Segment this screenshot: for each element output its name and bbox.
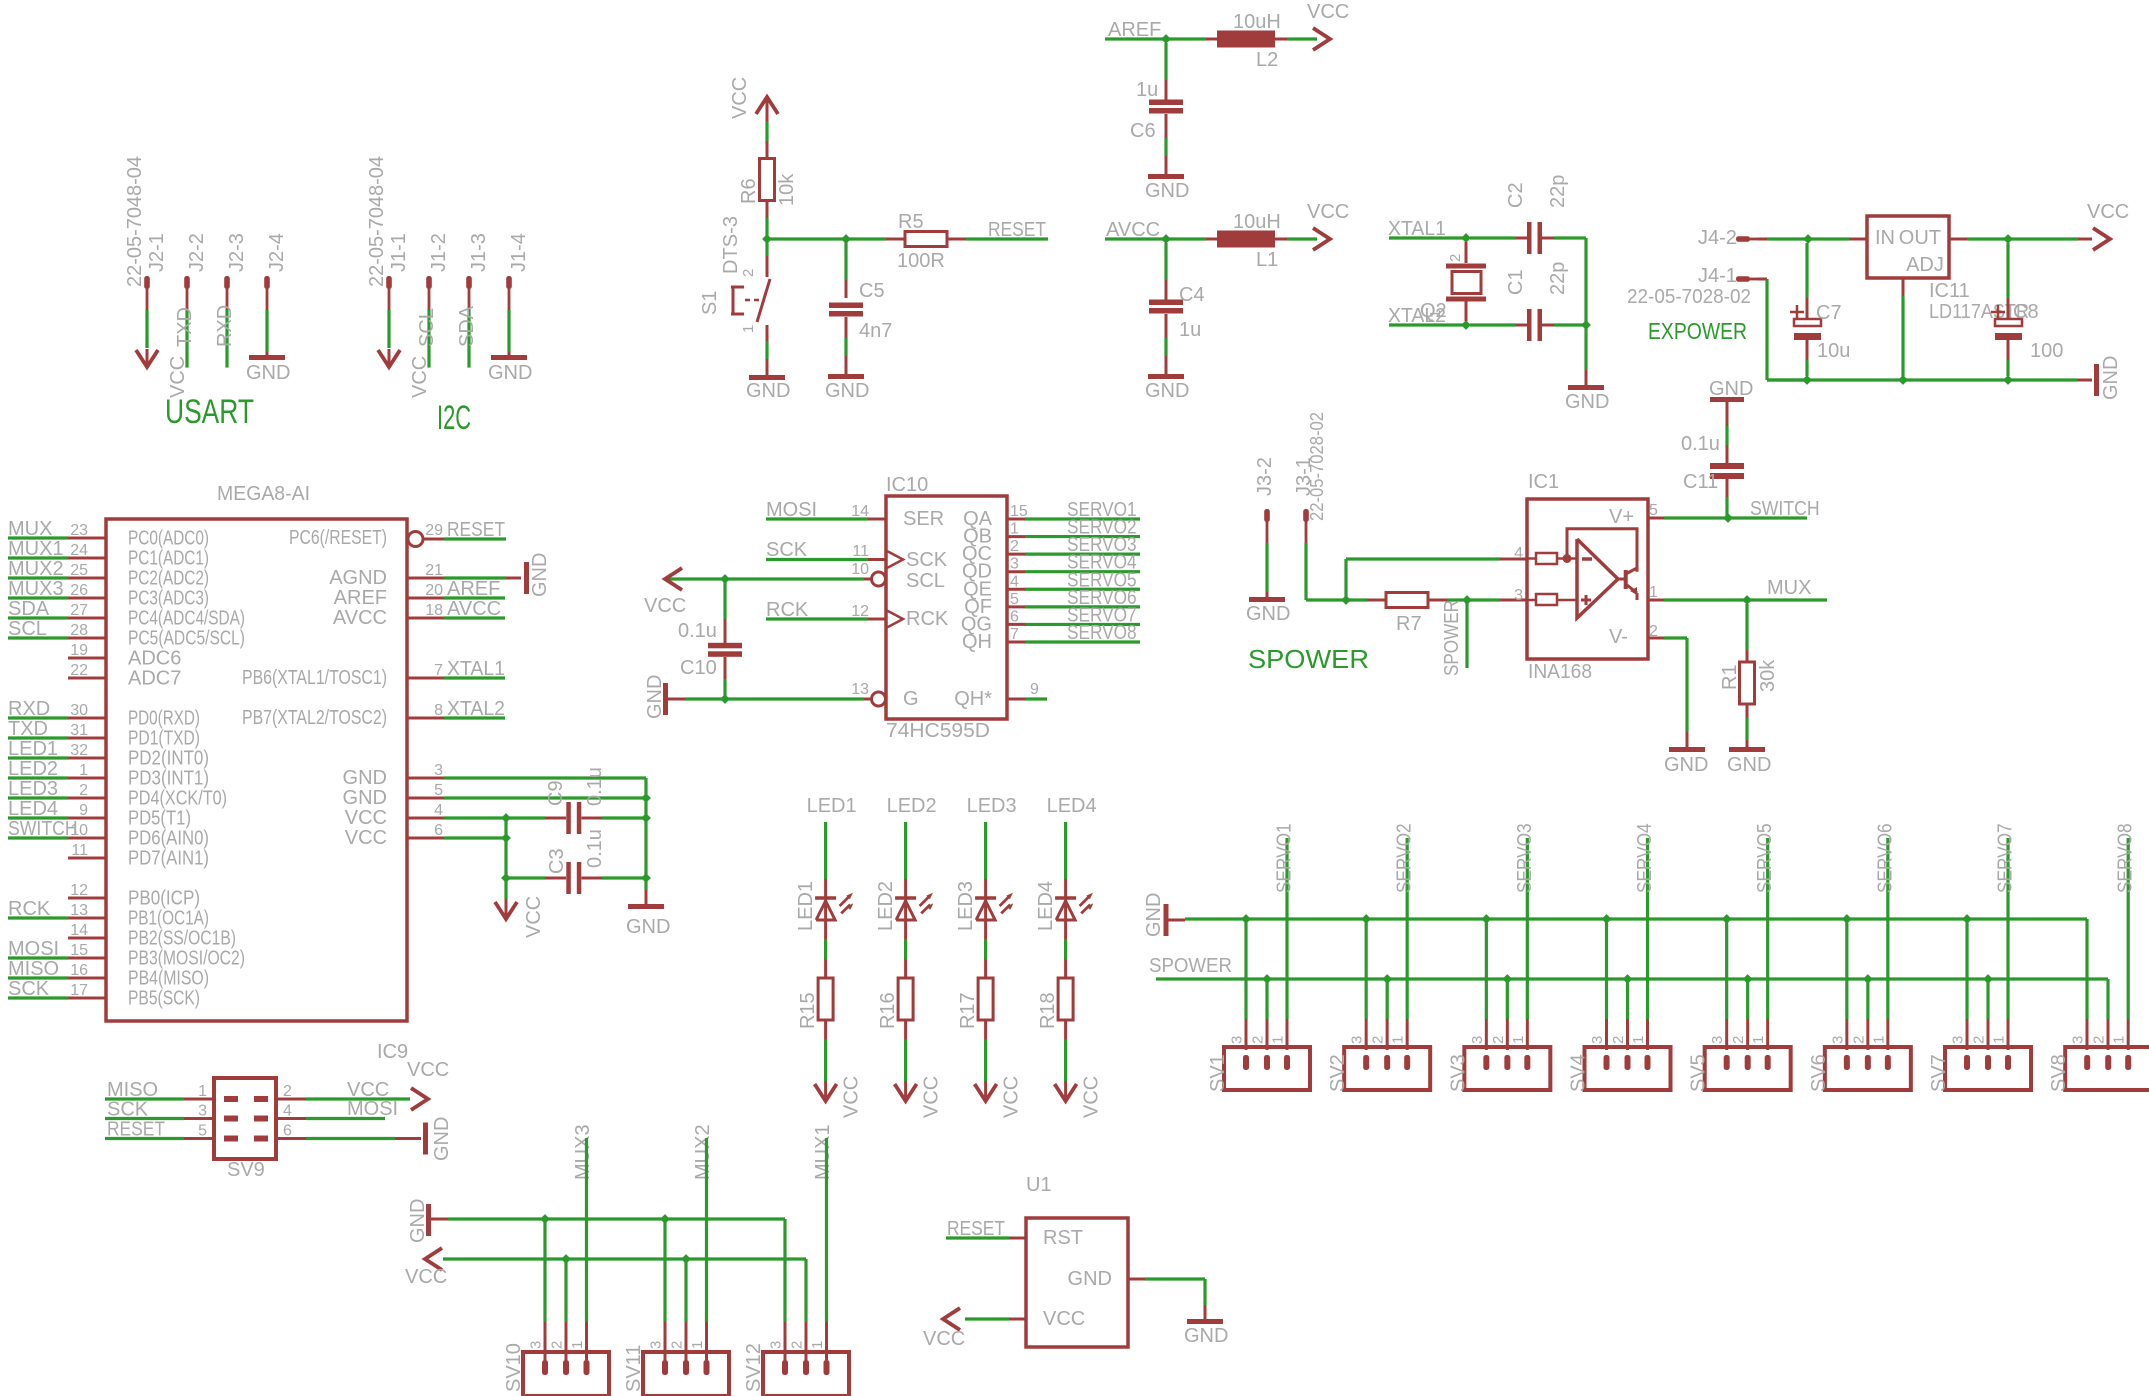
svg-text:2: 2 bbox=[1490, 1036, 1507, 1044]
svg-text:SCL: SCL bbox=[906, 570, 945, 592]
svg-text:2: 2 bbox=[79, 782, 88, 799]
svg-text:VCC: VCC bbox=[1307, 201, 1349, 223]
svg-text:C4: C4 bbox=[1179, 284, 1205, 306]
svg-text:10uH: 10uH bbox=[1233, 211, 1281, 233]
svg-text:MOSI: MOSI bbox=[8, 938, 59, 960]
svg-text:31: 31 bbox=[70, 722, 88, 739]
svg-text:1: 1 bbox=[2111, 1036, 2128, 1044]
svg-text:0.1u: 0.1u bbox=[678, 620, 717, 642]
svg-text:SV3: SV3 bbox=[1447, 1054, 1469, 1092]
svg-text:4n7: 4n7 bbox=[859, 320, 892, 342]
svg-text:17: 17 bbox=[70, 982, 88, 999]
svg-text:10k: 10k bbox=[776, 173, 798, 206]
svg-text:16: 16 bbox=[70, 962, 88, 979]
svg-text:3: 3 bbox=[2070, 1036, 2087, 1044]
svg-text:3: 3 bbox=[648, 1341, 665, 1349]
svg-text:GND: GND bbox=[2100, 356, 2122, 400]
svg-text:2: 2 bbox=[1971, 1036, 1988, 1044]
svg-text:EXPOWER: EXPOWER bbox=[1648, 318, 1747, 344]
svg-text:PC0(ADC0): PC0(ADC0) bbox=[128, 528, 209, 550]
svg-text:AREF: AREF bbox=[447, 578, 500, 600]
svg-text:R18: R18 bbox=[1037, 992, 1059, 1029]
svg-text:0.1u: 0.1u bbox=[584, 767, 606, 806]
svg-text:PC4(ADC4/SDA): PC4(ADC4/SDA) bbox=[128, 608, 245, 630]
svg-text:5: 5 bbox=[198, 1123, 207, 1140]
svg-text:R7: R7 bbox=[1396, 613, 1422, 635]
svg-text:INA168: INA168 bbox=[1528, 661, 1592, 683]
svg-text:RESET: RESET bbox=[988, 219, 1046, 241]
svg-text:R16: R16 bbox=[877, 992, 899, 1029]
svg-text:LED3: LED3 bbox=[967, 795, 1017, 817]
svg-text:PB4(MISO): PB4(MISO) bbox=[128, 968, 209, 990]
svg-text:3: 3 bbox=[434, 762, 443, 779]
svg-text:25: 25 bbox=[70, 562, 88, 579]
svg-text:SV10: SV10 bbox=[503, 1343, 525, 1392]
svg-text:AREF: AREF bbox=[334, 587, 387, 609]
svg-text:PB0(ICP): PB0(ICP) bbox=[128, 888, 200, 910]
svg-text:GND: GND bbox=[343, 767, 387, 789]
svg-text:1: 1 bbox=[689, 1341, 706, 1349]
svg-text:LED1: LED1 bbox=[795, 881, 817, 931]
svg-text:VCC: VCC bbox=[523, 896, 545, 938]
svg-text:2: 2 bbox=[1447, 254, 1464, 262]
svg-text:PD3(INT1): PD3(INT1) bbox=[128, 768, 209, 790]
svg-text:1: 1 bbox=[1390, 1036, 1407, 1044]
svg-text:SCK: SCK bbox=[8, 978, 50, 1000]
svg-text:MUX1: MUX1 bbox=[8, 538, 64, 560]
svg-text:R6: R6 bbox=[738, 178, 760, 204]
svg-text:PD0(RXD): PD0(RXD) bbox=[128, 708, 200, 730]
svg-text:J4-2: J4-2 bbox=[1698, 227, 1737, 249]
svg-text:1: 1 bbox=[1010, 521, 1019, 538]
svg-text:V-: V- bbox=[1609, 626, 1628, 648]
svg-text:LED1: LED1 bbox=[8, 738, 58, 760]
svg-text:2: 2 bbox=[1010, 538, 1019, 555]
svg-text:PC5(ADC5/SCL): PC5(ADC5/SCL) bbox=[128, 628, 245, 650]
svg-text:VCC: VCC bbox=[345, 827, 387, 849]
svg-text:MISO: MISO bbox=[8, 958, 59, 980]
svg-text:PC1(ADC1): PC1(ADC1) bbox=[128, 548, 209, 570]
svg-text:J1-2: J1-2 bbox=[428, 233, 450, 272]
svg-text:C1: C1 bbox=[1505, 269, 1527, 295]
svg-text:DTS-3: DTS-3 bbox=[720, 216, 742, 274]
svg-text:GND: GND bbox=[488, 362, 532, 384]
svg-text:12: 12 bbox=[851, 603, 869, 620]
svg-text:VCC: VCC bbox=[1043, 1308, 1085, 1330]
svg-text:1: 1 bbox=[1630, 1036, 1647, 1044]
svg-text:C5: C5 bbox=[859, 280, 885, 302]
svg-text:VCC: VCC bbox=[1001, 1076, 1023, 1118]
svg-text:1: 1 bbox=[1270, 1036, 1287, 1044]
svg-text:VCC: VCC bbox=[405, 1266, 447, 1288]
svg-text:J4-1: J4-1 bbox=[1698, 265, 1737, 287]
svg-text:1u: 1u bbox=[1179, 319, 1201, 341]
svg-text:R1: R1 bbox=[1719, 664, 1741, 690]
svg-text:VCC: VCC bbox=[1307, 1, 1349, 23]
svg-text:SV8: SV8 bbox=[2048, 1054, 2070, 1092]
svg-text:28: 28 bbox=[70, 622, 88, 639]
svg-text:AVCC: AVCC bbox=[333, 607, 387, 629]
svg-text:8: 8 bbox=[434, 702, 443, 719]
svg-text:C7: C7 bbox=[1816, 302, 1842, 324]
svg-text:IC10: IC10 bbox=[886, 474, 928, 496]
svg-text:PD2(INT0): PD2(INT0) bbox=[128, 748, 209, 770]
svg-text:GND: GND bbox=[1727, 754, 1771, 776]
svg-text:4: 4 bbox=[1514, 545, 1523, 562]
svg-text:SPOWER: SPOWER bbox=[1149, 955, 1232, 977]
svg-text:GND: GND bbox=[1143, 893, 1165, 937]
svg-text:SCL: SCL bbox=[8, 618, 47, 640]
svg-text:IC11: IC11 bbox=[1929, 280, 1970, 302]
svg-text:23: 23 bbox=[70, 522, 88, 539]
svg-text:VCC: VCC bbox=[1081, 1076, 1103, 1118]
svg-text:0.1u: 0.1u bbox=[584, 829, 606, 868]
svg-text:AGND: AGND bbox=[329, 567, 387, 589]
svg-text:3: 3 bbox=[528, 1341, 545, 1349]
svg-text:4: 4 bbox=[283, 1103, 292, 1120]
svg-text:SERVO3: SERVO3 bbox=[1514, 823, 1536, 893]
svg-text:3: 3 bbox=[1829, 1036, 1846, 1044]
svg-text:MUX: MUX bbox=[8, 518, 52, 540]
svg-text:J2-1: J2-1 bbox=[146, 233, 168, 272]
svg-text:GND: GND bbox=[1145, 180, 1189, 202]
svg-text:MUX3: MUX3 bbox=[8, 578, 64, 600]
svg-text:GND: GND bbox=[431, 1117, 453, 1161]
svg-text:19: 19 bbox=[70, 642, 88, 659]
svg-text:SER: SER bbox=[903, 508, 944, 530]
svg-text:3: 3 bbox=[1469, 1036, 1486, 1044]
svg-text:3: 3 bbox=[1514, 587, 1523, 604]
svg-text:5: 5 bbox=[434, 782, 443, 799]
svg-text:LED4: LED4 bbox=[8, 798, 58, 820]
svg-text:2: 2 bbox=[1850, 1036, 1867, 1044]
svg-text:PD4(XCK/T0): PD4(XCK/T0) bbox=[128, 788, 227, 810]
svg-text:22p: 22p bbox=[1547, 262, 1569, 295]
svg-text:SERVO1: SERVO1 bbox=[1274, 823, 1296, 893]
svg-text:IC1: IC1 bbox=[1528, 471, 1559, 493]
svg-text:SV4: SV4 bbox=[1568, 1054, 1590, 1092]
svg-text:AVCC: AVCC bbox=[447, 598, 501, 620]
svg-text:1: 1 bbox=[198, 1083, 207, 1100]
svg-text:1: 1 bbox=[1649, 584, 1658, 601]
svg-text:QH: QH bbox=[962, 631, 992, 653]
svg-text:C8: C8 bbox=[2013, 301, 2039, 323]
svg-text:LED2: LED2 bbox=[875, 881, 897, 931]
svg-text:GND: GND bbox=[1145, 380, 1189, 402]
svg-text:2: 2 bbox=[1730, 1036, 1747, 1044]
svg-text:USART: USART bbox=[165, 393, 254, 431]
svg-text:SV11: SV11 bbox=[623, 1345, 645, 1392]
svg-text:9: 9 bbox=[1030, 681, 1039, 698]
svg-text:11: 11 bbox=[71, 842, 88, 859]
svg-text:RCK: RCK bbox=[8, 898, 51, 920]
svg-text:10uH: 10uH bbox=[1233, 11, 1281, 33]
svg-text:4: 4 bbox=[434, 802, 443, 819]
svg-text:SERVO8: SERVO8 bbox=[2115, 823, 2137, 893]
svg-text:0.1u: 0.1u bbox=[1681, 433, 1720, 455]
svg-text:LED4: LED4 bbox=[1035, 881, 1057, 931]
svg-text:J2-3: J2-3 bbox=[226, 233, 248, 272]
svg-text:VCC: VCC bbox=[841, 1076, 863, 1118]
svg-text:RESET: RESET bbox=[107, 1119, 165, 1141]
svg-text:1: 1 bbox=[1991, 1036, 2008, 1044]
svg-text:7: 7 bbox=[1010, 626, 1019, 643]
svg-text:R15: R15 bbox=[797, 992, 819, 1029]
svg-text:J1-4: J1-4 bbox=[508, 233, 530, 272]
svg-text:VCC: VCC bbox=[729, 77, 751, 119]
svg-text:MUX1: MUX1 bbox=[812, 1124, 834, 1180]
svg-text:24: 24 bbox=[70, 542, 88, 559]
svg-text:I2C: I2C bbox=[437, 399, 471, 437]
svg-text:U1: U1 bbox=[1026, 1174, 1052, 1196]
svg-text:J2-2: J2-2 bbox=[186, 233, 208, 272]
svg-text:VCC: VCC bbox=[921, 1076, 943, 1118]
svg-text:GND: GND bbox=[1246, 603, 1290, 625]
svg-text:MEGA8-AI: MEGA8-AI bbox=[217, 483, 310, 505]
svg-text:TXD: TXD bbox=[174, 307, 196, 347]
svg-text:29: 29 bbox=[425, 522, 443, 539]
svg-text:22p: 22p bbox=[1547, 175, 1569, 208]
svg-text:15: 15 bbox=[70, 942, 88, 959]
svg-text:LED2: LED2 bbox=[887, 795, 937, 817]
svg-text:2: 2 bbox=[2091, 1036, 2108, 1044]
svg-text:ADJ: ADJ bbox=[1906, 254, 1944, 276]
svg-text:10u: 10u bbox=[1817, 340, 1850, 362]
svg-text:PD1(TXD): PD1(TXD) bbox=[128, 728, 200, 750]
svg-text:22-05-7048-04: 22-05-7048-04 bbox=[366, 156, 388, 287]
svg-text:J2-4: J2-4 bbox=[266, 233, 288, 272]
svg-text:XTAL1: XTAL1 bbox=[447, 658, 505, 680]
svg-text:1: 1 bbox=[569, 1341, 586, 1349]
svg-text:SCK: SCK bbox=[906, 549, 948, 571]
svg-text:GND: GND bbox=[246, 362, 290, 384]
svg-text:PB7(XTAL2/TOSC2): PB7(XTAL2/TOSC2) bbox=[242, 707, 387, 729]
svg-text:22-05-7048-04: 22-05-7048-04 bbox=[124, 156, 146, 287]
svg-text:GND: GND bbox=[746, 380, 790, 402]
svg-text:J1-1: J1-1 bbox=[388, 233, 410, 272]
svg-text:VCC: VCC bbox=[644, 595, 686, 617]
svg-text:SERVO6: SERVO6 bbox=[1874, 823, 1896, 893]
svg-text:30: 30 bbox=[70, 702, 88, 719]
svg-text:GND: GND bbox=[529, 553, 551, 597]
svg-text:J3-2: J3-2 bbox=[1254, 457, 1276, 496]
svg-text:PB1(OC1A): PB1(OC1A) bbox=[128, 908, 209, 930]
svg-text:GND: GND bbox=[1565, 391, 1609, 413]
svg-text:PD5(T1): PD5(T1) bbox=[128, 808, 191, 830]
svg-text:2: 2 bbox=[1250, 1036, 1267, 1044]
svg-text:11: 11 bbox=[852, 543, 869, 560]
svg-text:3: 3 bbox=[1229, 1036, 1246, 1044]
svg-text:RXD: RXD bbox=[8, 698, 50, 720]
svg-text:G: G bbox=[903, 688, 919, 710]
svg-text:3: 3 bbox=[1589, 1036, 1606, 1044]
svg-text:1: 1 bbox=[1510, 1036, 1527, 1044]
svg-text:74HC595D: 74HC595D bbox=[886, 720, 990, 742]
svg-text:MUX: MUX bbox=[1767, 577, 1811, 599]
svg-text:1u: 1u bbox=[1136, 79, 1158, 101]
svg-text:GND: GND bbox=[1664, 754, 1708, 776]
svg-text:14: 14 bbox=[851, 503, 869, 520]
svg-text:SDA: SDA bbox=[8, 598, 50, 620]
svg-text:C6: C6 bbox=[1130, 120, 1156, 142]
svg-text:9: 9 bbox=[79, 802, 88, 819]
svg-text:2: 2 bbox=[283, 1083, 292, 1100]
svg-text:R5: R5 bbox=[898, 211, 924, 233]
svg-text:S1: S1 bbox=[699, 291, 721, 315]
svg-text:GND: GND bbox=[1068, 1268, 1112, 1290]
svg-text:V+: V+ bbox=[1609, 506, 1634, 528]
svg-text:SV6: SV6 bbox=[1808, 1054, 1830, 1092]
svg-text:26: 26 bbox=[70, 582, 88, 599]
svg-text:10: 10 bbox=[851, 561, 869, 578]
svg-text:TXD: TXD bbox=[8, 718, 48, 740]
svg-text:20: 20 bbox=[425, 582, 443, 599]
svg-text:2: 2 bbox=[549, 1341, 566, 1349]
svg-text:3: 3 bbox=[1349, 1036, 1366, 1044]
svg-text:SERVO4: SERVO4 bbox=[1634, 823, 1656, 893]
svg-text:C3: C3 bbox=[546, 848, 568, 874]
svg-text:1: 1 bbox=[1427, 310, 1444, 318]
svg-text:3: 3 bbox=[1010, 556, 1019, 573]
svg-text:30k: 30k bbox=[1757, 659, 1779, 692]
svg-text:2: 2 bbox=[740, 269, 757, 277]
svg-text:14: 14 bbox=[70, 922, 88, 939]
svg-text:SPOWER: SPOWER bbox=[1441, 600, 1463, 676]
svg-text:27: 27 bbox=[70, 602, 88, 619]
svg-text:IC9: IC9 bbox=[377, 1041, 408, 1063]
svg-text:PB2(SS/OC1B): PB2(SS/OC1B) bbox=[128, 928, 236, 950]
svg-text:GND: GND bbox=[1184, 1325, 1228, 1347]
svg-text:22-05-7028-02: 22-05-7028-02 bbox=[1307, 412, 1327, 521]
svg-text:GND: GND bbox=[343, 787, 387, 809]
svg-text:SV9: SV9 bbox=[227, 1159, 265, 1181]
svg-text:PD7(AIN1): PD7(AIN1) bbox=[128, 848, 209, 870]
svg-text:SCL: SCL bbox=[416, 308, 438, 347]
svg-text:RXD: RXD bbox=[214, 305, 236, 347]
svg-text:VCC: VCC bbox=[923, 1328, 965, 1350]
svg-text:SV12: SV12 bbox=[743, 1343, 765, 1392]
svg-text:L2: L2 bbox=[1256, 49, 1278, 71]
svg-text:LED3: LED3 bbox=[955, 881, 977, 931]
svg-text:VCC: VCC bbox=[407, 1059, 449, 1081]
svg-text:SWITCH: SWITCH bbox=[1750, 498, 1820, 520]
svg-text:C2: C2 bbox=[1505, 182, 1527, 208]
svg-text:13: 13 bbox=[851, 681, 869, 698]
svg-text:SV5: SV5 bbox=[1688, 1054, 1710, 1092]
svg-text:5: 5 bbox=[1649, 502, 1658, 519]
svg-text:22-05-7028-02: 22-05-7028-02 bbox=[1627, 286, 1751, 308]
svg-text:SV2: SV2 bbox=[1327, 1054, 1349, 1092]
svg-text:2: 2 bbox=[669, 1341, 686, 1349]
svg-text:MUX3: MUX3 bbox=[572, 1124, 594, 1180]
svg-text:XTAL2: XTAL2 bbox=[447, 698, 505, 720]
svg-text:SV1: SV1 bbox=[1207, 1054, 1229, 1092]
svg-text:5: 5 bbox=[1010, 591, 1019, 608]
svg-text:LED2: LED2 bbox=[8, 758, 58, 780]
svg-text:13: 13 bbox=[70, 902, 88, 919]
svg-text:6: 6 bbox=[1010, 608, 1019, 625]
svg-text:3: 3 bbox=[1950, 1036, 1967, 1044]
svg-text:3: 3 bbox=[198, 1103, 207, 1120]
svg-text:LED3: LED3 bbox=[8, 778, 58, 800]
svg-text:6: 6 bbox=[283, 1123, 292, 1140]
svg-text:3: 3 bbox=[768, 1341, 785, 1349]
svg-text:32: 32 bbox=[70, 742, 88, 759]
svg-text:4: 4 bbox=[1010, 573, 1019, 590]
svg-text:VCC: VCC bbox=[2087, 201, 2129, 223]
svg-text:22: 22 bbox=[70, 662, 88, 679]
svg-text:PC2(ADC2): PC2(ADC2) bbox=[128, 568, 209, 590]
svg-text:SDA: SDA bbox=[456, 305, 478, 347]
svg-text:SERVO2: SERVO2 bbox=[1394, 823, 1416, 893]
svg-text:SERVO5: SERVO5 bbox=[1754, 823, 1776, 893]
svg-text:3: 3 bbox=[1709, 1036, 1726, 1044]
svg-text:2: 2 bbox=[1370, 1036, 1387, 1044]
svg-text:6: 6 bbox=[434, 822, 443, 839]
svg-text:LED1: LED1 bbox=[807, 795, 857, 817]
svg-text:PB6(XTAL1/TOSC1): PB6(XTAL1/TOSC1) bbox=[242, 667, 387, 689]
svg-text:RST: RST bbox=[1043, 1227, 1083, 1249]
svg-text:C11: C11 bbox=[1683, 471, 1718, 493]
svg-text:SCK: SCK bbox=[107, 1099, 149, 1121]
svg-text:PC3(ADC3): PC3(ADC3) bbox=[128, 588, 209, 610]
svg-text:2: 2 bbox=[1610, 1036, 1627, 1044]
svg-text:SCK: SCK bbox=[766, 539, 808, 561]
svg-text:R17: R17 bbox=[957, 992, 979, 1029]
svg-text:100: 100 bbox=[2030, 340, 2063, 362]
svg-text:LED4: LED4 bbox=[1047, 795, 1097, 817]
svg-text:MUX2: MUX2 bbox=[8, 558, 64, 580]
svg-text:IN: IN bbox=[1875, 227, 1895, 249]
svg-text:18: 18 bbox=[425, 602, 443, 619]
svg-text:2: 2 bbox=[789, 1341, 806, 1349]
svg-text:QH*: QH* bbox=[954, 688, 992, 710]
svg-text:PB3(MOSI/OC2): PB3(MOSI/OC2) bbox=[128, 948, 245, 970]
svg-text:1: 1 bbox=[79, 762, 88, 779]
svg-text:PB5(SCK): PB5(SCK) bbox=[128, 988, 200, 1010]
svg-text:SV7: SV7 bbox=[1928, 1054, 1950, 1092]
svg-text:GND: GND bbox=[1709, 378, 1753, 400]
svg-text:SERVO8: SERVO8 bbox=[1067, 622, 1137, 644]
svg-text:PC6(/RESET): PC6(/RESET) bbox=[289, 527, 387, 549]
svg-text:1: 1 bbox=[1870, 1036, 1887, 1044]
svg-text:GND: GND bbox=[407, 1199, 429, 1243]
svg-text:GND: GND bbox=[626, 916, 670, 938]
svg-text:MUX2: MUX2 bbox=[692, 1124, 714, 1180]
svg-text:1: 1 bbox=[1750, 1036, 1767, 1044]
svg-text:OUT: OUT bbox=[1899, 227, 1941, 249]
svg-text:12: 12 bbox=[70, 882, 88, 899]
svg-text:SERVO7: SERVO7 bbox=[1995, 823, 2017, 893]
svg-text:VCC: VCC bbox=[345, 807, 387, 829]
svg-text:C9: C9 bbox=[545, 780, 567, 806]
svg-text:1: 1 bbox=[740, 325, 757, 333]
svg-text:21: 21 bbox=[425, 562, 443, 579]
svg-text:RCK: RCK bbox=[906, 608, 949, 630]
svg-text:ADC7: ADC7 bbox=[128, 668, 181, 690]
svg-text:MOSI: MOSI bbox=[347, 1098, 398, 1120]
svg-text:J1-3: J1-3 bbox=[468, 233, 490, 272]
svg-text:GND: GND bbox=[825, 380, 869, 402]
svg-text:ADC6: ADC6 bbox=[128, 648, 181, 670]
svg-text:C10: C10 bbox=[680, 657, 717, 679]
svg-text:L1: L1 bbox=[1256, 249, 1278, 271]
svg-text:SWITCH: SWITCH bbox=[8, 818, 78, 840]
svg-text:RESET: RESET bbox=[447, 519, 505, 541]
svg-text:7: 7 bbox=[434, 662, 443, 679]
svg-text:SPOWER: SPOWER bbox=[1248, 644, 1369, 674]
svg-text:GND: GND bbox=[644, 675, 666, 719]
